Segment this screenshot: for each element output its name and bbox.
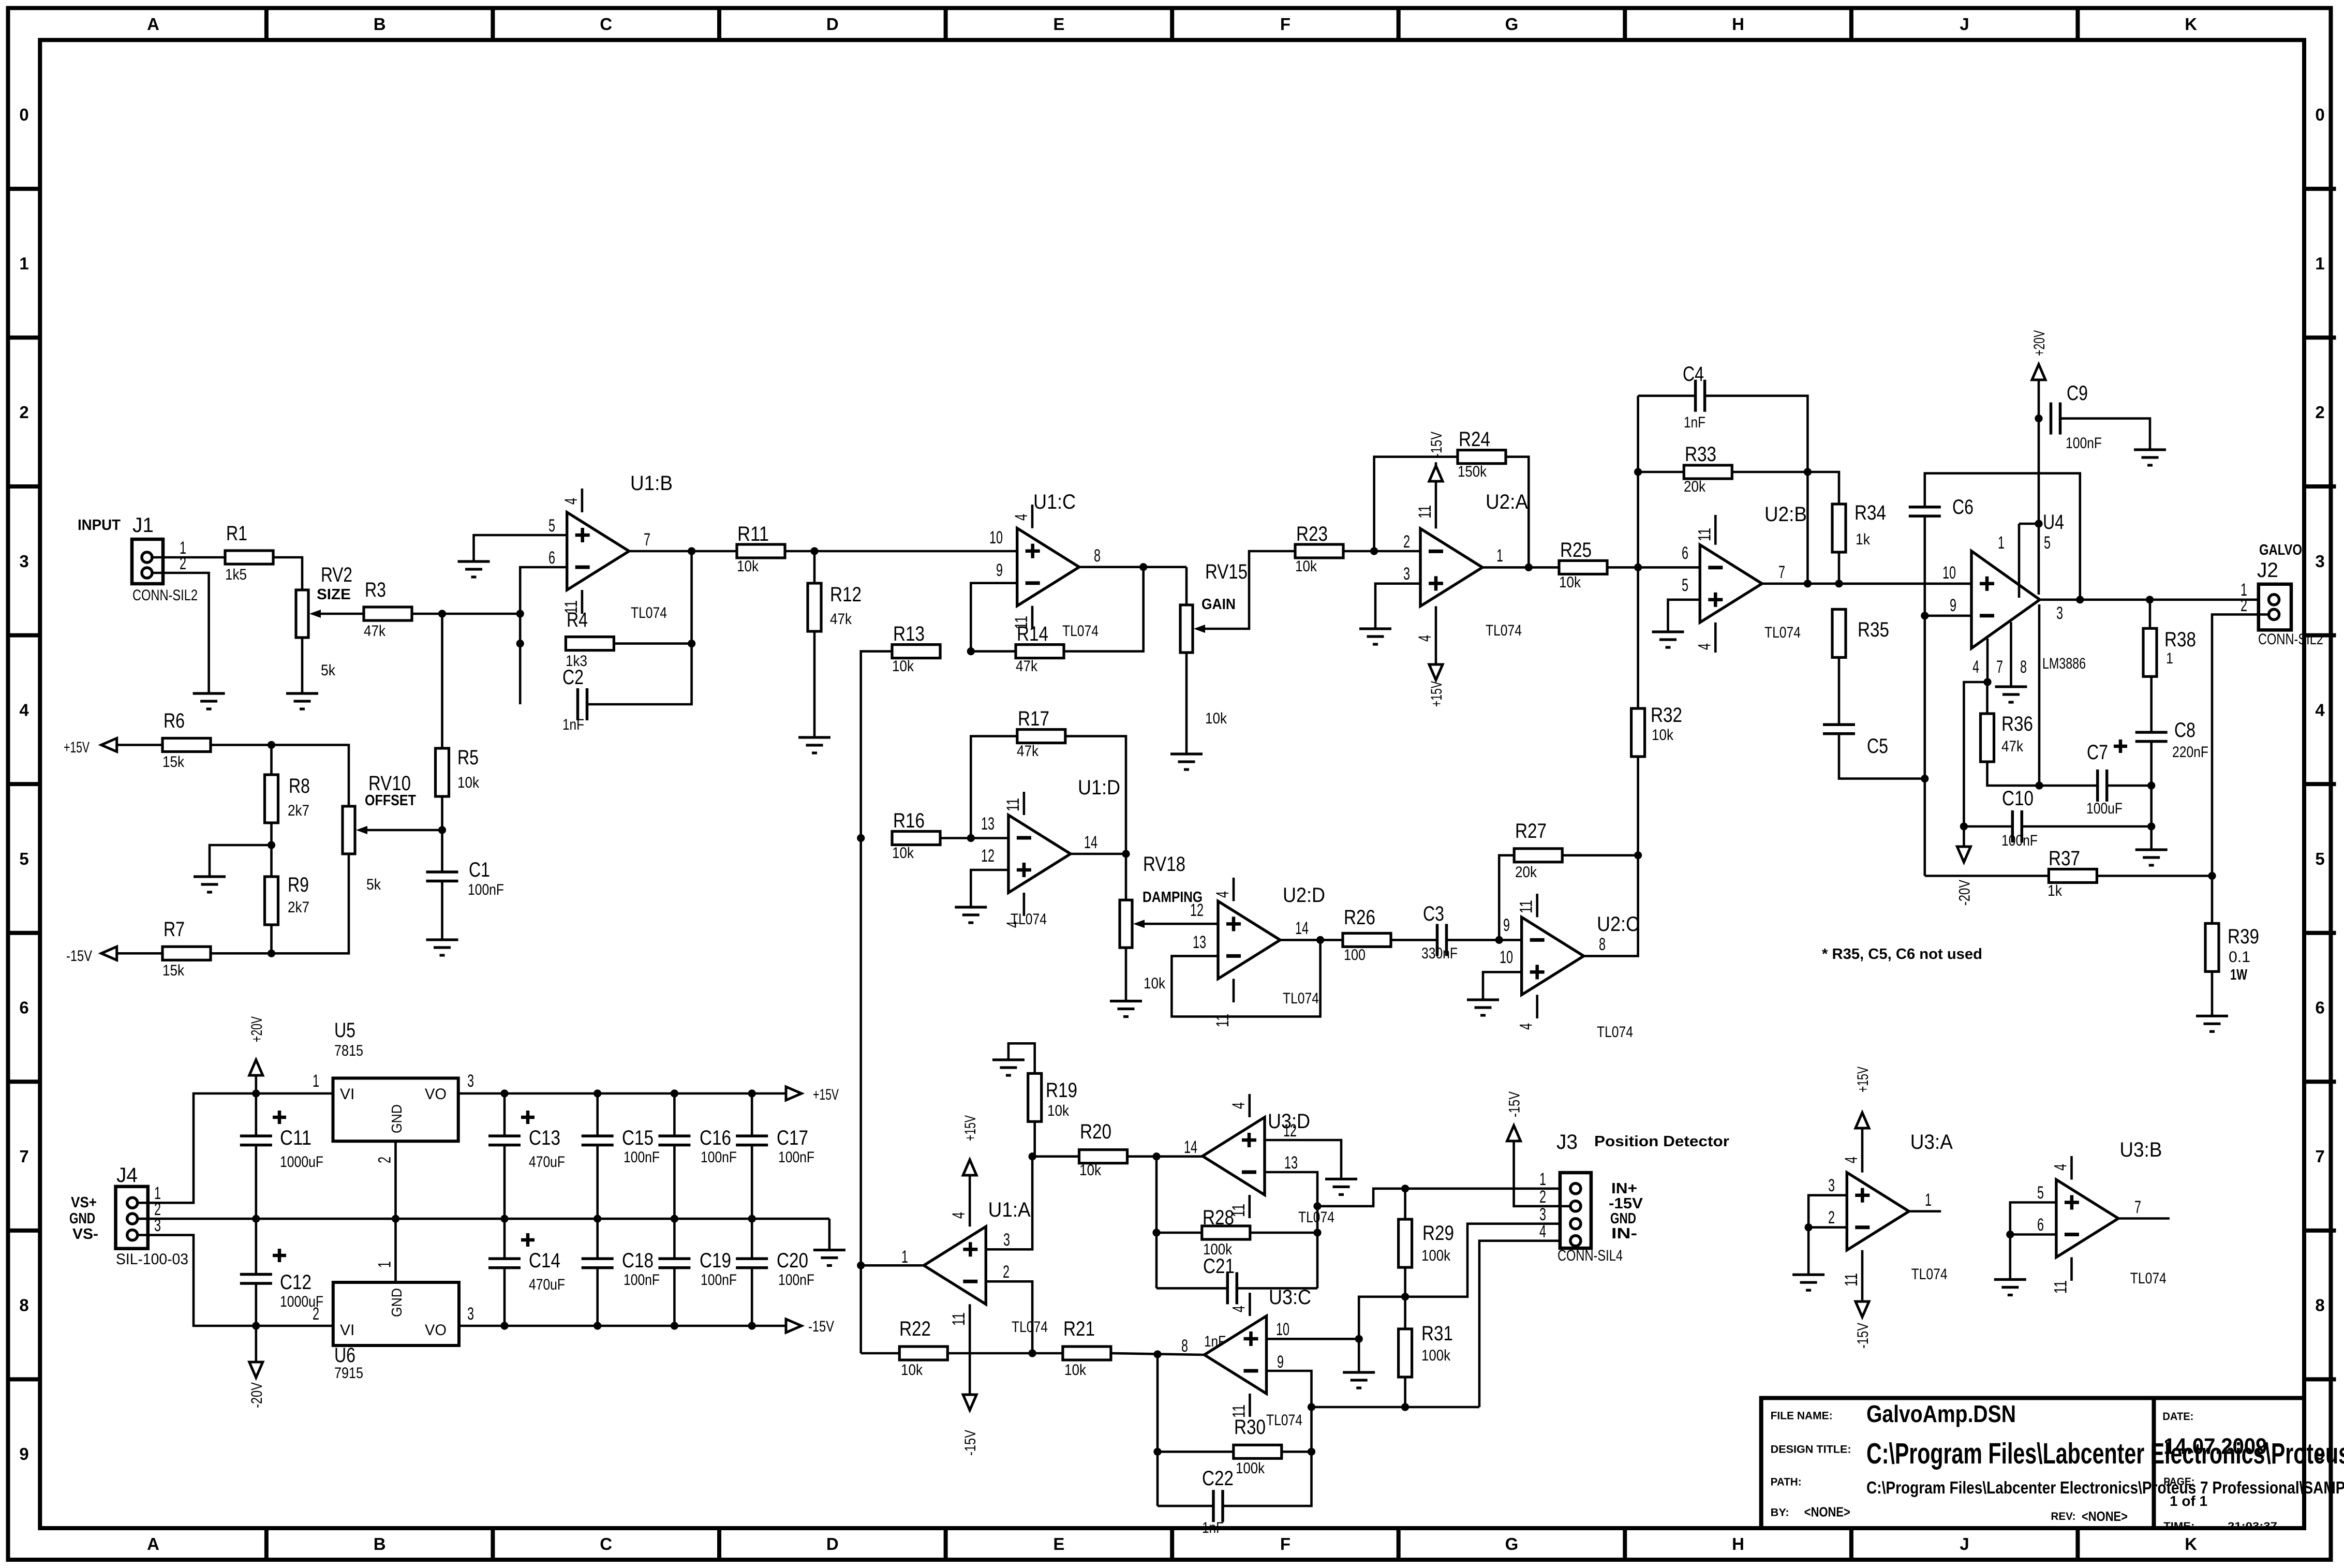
capacitor C15	[582, 1127, 660, 1166]
capacitor C20	[736, 1249, 814, 1289]
wire U3:A pin11 to -15V	[1861, 1250, 1864, 1301]
svg-text:0: 0	[19, 105, 28, 124]
capacitor C19	[658, 1249, 737, 1289]
svg-text:1: 1	[19, 254, 28, 273]
power arrow -20V at C12	[248, 1326, 265, 1408]
wire node down to R37 row	[1924, 779, 1926, 876]
wire R21 to U3:C output	[1111, 1350, 1204, 1358]
svg-text:U1:A: U1:A	[988, 1199, 1031, 1221]
svg-text:7: 7	[644, 530, 650, 550]
wire R36 bottom to C7 row	[1987, 762, 2098, 786]
svg-text:1k5: 1k5	[225, 566, 247, 583]
label Position Detector	[1594, 1133, 1729, 1150]
wire J4 pin1 to +20V rail	[138, 1089, 333, 1203]
svg-text:3: 3	[467, 1304, 474, 1324]
ground at R12	[798, 737, 830, 753]
wire R4 to output column	[614, 640, 695, 647]
wire output to R14 feedback	[1064, 567, 1144, 652]
svg-text:U1:C: U1:C	[1033, 491, 1076, 513]
wire U3:A pin4 to +15V	[1861, 1128, 1864, 1173]
svg-text:+15V: +15V	[813, 1086, 839, 1103]
power arrow -15V at U2:A pin11	[1428, 432, 1445, 481]
op-amp U3:B	[2037, 1138, 2167, 1294]
wire C8 bottom node down	[2147, 742, 2155, 831]
svg-text:H: H	[1732, 1534, 1744, 1554]
wire C5 bottom to R37 column	[1839, 734, 1925, 779]
resistor R9	[265, 874, 310, 925]
ground at U1:D pin 12	[955, 907, 987, 923]
resistor R32	[1631, 704, 1682, 757]
svg-text:4: 4	[1012, 514, 1031, 521]
potentiometer RV10	[343, 772, 411, 893]
svg-text:R27: R27	[1515, 820, 1547, 842]
wire R33 node to R34	[1807, 472, 1839, 504]
power arrow -20V below C10	[1956, 826, 1973, 906]
svg-text:TL074: TL074	[1266, 1412, 1302, 1429]
op-amp U3:C	[1181, 1286, 1311, 1429]
svg-text:6: 6	[1682, 543, 1688, 563]
ground at U1:B pin 5	[458, 561, 490, 577]
wire U3:B inputs tied	[2006, 1203, 2056, 1239]
svg-text:SIL-100-03: SIL-100-03	[116, 1251, 188, 1268]
svg-text:3: 3	[19, 552, 28, 571]
svg-text:13: 13	[981, 814, 995, 834]
resistor R27	[1514, 820, 1562, 881]
svg-text:1: 1	[2315, 254, 2324, 273]
svg-text:TL074: TL074	[1283, 990, 1319, 1007]
capacitor C7	[2086, 739, 2127, 817]
wire junction down to R32	[1637, 567, 1639, 708]
op-amp U1:A	[901, 1199, 1048, 1336]
svg-text:11: 11	[1695, 528, 1714, 541]
wire C21 left	[1156, 1287, 1227, 1290]
connector J4	[116, 1164, 189, 1268]
wire U4 pin5 arrow stem	[2038, 380, 2040, 419]
svg-text:U1:B: U1:B	[630, 472, 673, 495]
svg-text:G: G	[1505, 14, 1519, 34]
wire R34 bottom junction	[1838, 552, 1841, 584]
svg-text:1: 1	[1496, 546, 1503, 566]
ground at C1	[426, 940, 458, 955]
svg-text:11: 11	[2051, 1280, 2071, 1294]
svg-text:100nF: 100nF	[468, 881, 504, 898]
capacitor C11	[240, 1111, 323, 1171]
wire R25 to U2:B pin6	[1607, 564, 1700, 571]
wire U3:C pin10 stub	[1267, 1338, 1359, 1340]
svg-text:F: F	[1280, 1534, 1290, 1554]
power arrow +20V at U4 pin5	[2031, 330, 2048, 380]
connector J3	[1539, 1131, 1623, 1264]
svg-text:TL074: TL074	[1062, 623, 1099, 640]
wire R19 top to ground stub	[1008, 1043, 1035, 1073]
wire U1:B pin6 from node A	[516, 567, 567, 704]
svg-text:470uF: 470uF	[529, 1276, 565, 1293]
svg-text:R28: R28	[1203, 1206, 1234, 1229]
svg-text:C20: C20	[777, 1249, 808, 1272]
wire node A down to R5	[441, 614, 443, 748]
resistor R1	[225, 522, 273, 583]
svg-text:C: C	[600, 14, 612, 34]
wire U1:A pin4 to +15V	[969, 1175, 971, 1226]
wire C8 top to R38	[2150, 675, 2153, 732]
svg-text:10: 10	[1500, 948, 1513, 967]
svg-text:3: 3	[2056, 603, 2063, 623]
potentiometer RV2	[296, 564, 352, 679]
resistor R26	[1343, 906, 1391, 964]
svg-text:R35: R35	[1858, 618, 1889, 641]
power arrow +15V at R6	[64, 738, 117, 757]
op-amp U2:D	[1190, 878, 1325, 1027]
wire U2:A output to R25	[1482, 564, 1559, 571]
svg-text:4: 4	[2051, 1164, 2071, 1171]
resistor R12	[808, 583, 862, 631]
svg-text:TIME:: TIME:	[2163, 1520, 2194, 1532]
svg-text:U2:D: U2:D	[1283, 884, 1325, 907]
wire R23 to U2:A pin2	[1343, 547, 1420, 555]
svg-text:1nF: 1nF	[1202, 1519, 1224, 1536]
wire U3:D pin13 loop	[1265, 1172, 1322, 1288]
svg-text:4: 4	[19, 700, 29, 719]
svg-text:+15V: +15V	[962, 1115, 979, 1141]
ground at RV2	[286, 693, 318, 709]
wire U3:A pin2 to ground	[1807, 1227, 1810, 1275]
svg-text:1: 1	[1925, 1190, 1932, 1210]
wire U6 VO to -15V rail	[459, 1322, 787, 1329]
op-amp U1:C	[989, 491, 1101, 640]
wire RV15 bottom to ground	[1185, 653, 1188, 754]
svg-text:D: D	[826, 14, 839, 34]
svg-text:0.1: 0.1	[2229, 949, 2250, 966]
potentiometer RV18	[1120, 853, 1185, 992]
svg-text:PAGE:: PAGE:	[2163, 1476, 2194, 1488]
wire U1:B pin5 ground stub	[474, 535, 567, 561]
ground at U3:D pin 12	[1325, 1179, 1357, 1194]
resistor R35 (not used)	[1832, 609, 1889, 657]
svg-text:9: 9	[1277, 1352, 1284, 1372]
resistor R29	[1399, 1219, 1454, 1267]
svg-text:C13: C13	[529, 1127, 560, 1149]
svg-text:10k: 10k	[892, 845, 914, 862]
resistor R17	[1017, 707, 1065, 760]
wire U1:D pin12 ground stub	[971, 870, 1008, 907]
svg-text:C4: C4	[1683, 363, 1704, 386]
svg-text:+15V: +15V	[1428, 681, 1445, 707]
svg-text:R36: R36	[2001, 713, 2033, 735]
svg-text:10: 10	[989, 528, 1003, 548]
connector J1	[132, 514, 198, 604]
svg-text:13: 13	[1284, 1153, 1298, 1173]
svg-text:C16: C16	[700, 1127, 731, 1149]
ground at RV18	[1110, 1001, 1142, 1017]
svg-text:1 of 1: 1 of 1	[2170, 1493, 2207, 1509]
svg-text:1: 1	[375, 1261, 395, 1268]
wire U2:B pin5 ground stub	[1668, 600, 1700, 632]
svg-text:100nF: 100nF	[624, 1149, 660, 1166]
wire R24 to U2:A output	[1506, 457, 1529, 568]
label GND	[69, 1210, 95, 1227]
svg-text:8: 8	[2315, 1296, 2324, 1315]
wire C11 top	[255, 1093, 257, 1136]
wire GND rail to ground	[828, 1219, 831, 1250]
wire C18 leads	[596, 1219, 599, 1326]
wire C11 bottom to GND rail	[252, 1145, 260, 1223]
svg-text:0: 0	[2315, 105, 2324, 124]
wire U1:D output to RV18	[1071, 850, 1130, 900]
wire U2:C output	[1584, 855, 1638, 956]
svg-text:10k: 10k	[737, 558, 759, 575]
svg-text:11: 11	[1003, 798, 1023, 811]
resistor R21	[1063, 1318, 1111, 1379]
svg-text:J: J	[1960, 14, 1969, 34]
capacitor C10	[2001, 787, 2038, 849]
svg-text:U6: U6	[334, 1344, 355, 1367]
svg-text:CONN-SIL2: CONN-SIL2	[132, 587, 198, 604]
svg-text:15k: 15k	[162, 962, 185, 979]
label OFFSET	[365, 792, 416, 809]
label IN-	[1611, 1225, 1637, 1242]
capacitor C3	[1421, 903, 1458, 962]
svg-text:R34: R34	[1855, 501, 1886, 524]
svg-text:1: 1	[313, 1071, 319, 1091]
wire RV15 wiper to R23	[1205, 551, 1295, 629]
svg-text:DESIGN TITLE:: DESIGN TITLE:	[1771, 1444, 1851, 1456]
svg-text:2: 2	[313, 1304, 319, 1324]
svg-text:R25: R25	[1560, 539, 1592, 561]
wire bus to R22	[861, 1352, 900, 1355]
wire C4 right to R33 right	[1705, 396, 1812, 588]
svg-text:C1: C1	[469, 859, 490, 881]
wire R3 to node A with junction	[412, 610, 520, 617]
resistor R19	[1028, 1073, 1077, 1121]
svg-text:100k: 100k	[1421, 1347, 1451, 1364]
wire J3 pin2 to -15V arrow	[1514, 1155, 1570, 1206]
svg-text:100nF: 100nF	[624, 1271, 660, 1289]
wire R12 to ground	[813, 631, 816, 737]
label VS-	[72, 1226, 98, 1242]
wire U4 pins 1 5 to +20V	[2019, 415, 2043, 598]
power arrow +15V right	[786, 1086, 839, 1103]
svg-text:47k: 47k	[2001, 738, 2024, 755]
svg-text:+15V: +15V	[1855, 1067, 1872, 1092]
svg-text:4: 4	[1695, 643, 1714, 650]
svg-text:9: 9	[996, 560, 1003, 580]
wire U1:A pin2 to R21 R22 node	[986, 1281, 1036, 1357]
svg-text:6: 6	[19, 998, 28, 1017]
wire C22 right	[1223, 1452, 1312, 1506]
wire J4 pin3 to -15V rail	[138, 1235, 333, 1330]
svg-text:H: H	[1732, 14, 1744, 34]
svg-text:100k: 100k	[1421, 1247, 1451, 1264]
resistor R31	[1399, 1322, 1453, 1377]
wire U2:B output to U4	[1762, 580, 1971, 587]
svg-text:1: 1	[1998, 533, 2005, 553]
svg-text:2: 2	[1403, 532, 1410, 552]
op-amp U1:D	[981, 776, 1120, 928]
svg-text:R17: R17	[1018, 707, 1049, 730]
resistor R38	[2143, 628, 2196, 676]
svg-text:-15V: -15V	[66, 948, 92, 965]
svg-text:8: 8	[19, 1296, 28, 1315]
wire J2 pin2 to R37 node	[2212, 614, 2269, 876]
svg-text:2: 2	[1539, 1187, 1546, 1207]
wire -15V arrow to R7	[117, 952, 162, 955]
wire U1:C out to RV15 top	[1185, 567, 1188, 605]
svg-text:7915: 7915	[334, 1365, 363, 1382]
power arrow +15V at U2:A pin4	[1428, 664, 1445, 707]
wire R13 to bus	[857, 652, 892, 1353]
svg-text:4: 4	[561, 498, 581, 505]
wire U2:A pin3 ground stub	[1375, 584, 1420, 629]
wire C21 right	[1237, 1287, 1317, 1290]
wire R31 bottom	[1404, 1377, 1406, 1407]
wire RV18 wiper to U2:D pin12	[1145, 923, 1218, 925]
wire U4 output	[2040, 596, 2259, 603]
wire C10 right	[2022, 825, 2151, 828]
ground at R8 R9 node	[194, 877, 226, 892]
ground at U2:C pin 10	[1467, 1000, 1499, 1015]
svg-text:-20V: -20V	[1956, 880, 1973, 906]
wire C10 node to ground	[2150, 826, 2153, 850]
svg-text:C21: C21	[1203, 1255, 1235, 1278]
ground at RV15	[1170, 754, 1203, 770]
wire U3:C output column	[1153, 1354, 1161, 1506]
title block	[1761, 1398, 2344, 1533]
svg-text:U2:C: U2:C	[1597, 913, 1639, 936]
svg-text:TL074: TL074	[1012, 1319, 1048, 1336]
resistor R5	[436, 746, 480, 796]
svg-text:R12: R12	[830, 583, 862, 606]
wire C14 leads	[503, 1219, 506, 1326]
svg-text:100nF: 100nF	[701, 1149, 737, 1166]
svg-text:1k: 1k	[1856, 531, 1871, 548]
svg-text:100k: 100k	[1236, 1460, 1265, 1477]
svg-text:10k: 10k	[1047, 1102, 1070, 1119]
svg-text:7: 7	[19, 1147, 28, 1166]
label INPUT	[78, 517, 121, 534]
potentiometer RV15	[1180, 560, 1248, 727]
wire U3:C pin9 loop	[1267, 1371, 1316, 1411]
svg-text:U1:D: U1:D	[1078, 776, 1120, 799]
power arrow +15V at U3:A	[1855, 1067, 1872, 1128]
svg-text:<NONE>: <NONE>	[2082, 1508, 2128, 1524]
svg-text:470uF: 470uF	[529, 1153, 565, 1171]
svg-text:G: G	[1505, 1534, 1519, 1554]
svg-text:E: E	[1053, 1534, 1064, 1554]
svg-text:1W: 1W	[2230, 967, 2247, 983]
svg-text:47k: 47k	[364, 623, 386, 640]
wire R39 to ground	[2211, 971, 2214, 1016]
wire junction to ground stub	[210, 845, 272, 877]
wire R37 left	[1925, 875, 2049, 877]
svg-text:BY:: BY:	[1771, 1506, 1789, 1518]
svg-text:U3:A: U3:A	[1910, 1131, 1953, 1153]
wire U1:B output	[629, 547, 737, 555]
svg-text:5: 5	[1682, 575, 1688, 595]
wire GND rail	[138, 1218, 829, 1220]
power arrow -15V at R7	[66, 946, 117, 965]
resistor R11	[737, 523, 785, 575]
ground at R19	[992, 1060, 1025, 1075]
wire U3:B pin6 to ground	[2009, 1235, 2012, 1280]
capacitor C18	[582, 1249, 660, 1289]
ground at U3:B	[1994, 1280, 2026, 1295]
svg-text:-15V: -15V	[1609, 1195, 1643, 1212]
svg-text:C:\Program Files\Labcenter Ele: C:\Program Files\Labcenter Electronics\P…	[1866, 1478, 2344, 1497]
op-amp U3:A	[1828, 1131, 1953, 1286]
svg-text:1: 1	[1539, 1170, 1546, 1189]
svg-text:-20V: -20V	[248, 1382, 265, 1408]
capacitor C5 (not used)	[1823, 724, 1888, 758]
wire RV2 bottom to ground	[301, 638, 304, 693]
wire R33 left lead	[1638, 471, 1684, 474]
svg-text:CONN-SIL4: CONN-SIL4	[1557, 1247, 1623, 1264]
wire U3:B output stub	[2118, 1217, 2170, 1220]
resistor R39	[2205, 923, 2259, 971]
wire C1 to ground	[441, 881, 443, 940]
svg-text:LM3886: LM3886	[2042, 655, 2086, 672]
ground at J1 pin 2	[193, 693, 225, 709]
svg-text:3: 3	[467, 1071, 474, 1091]
svg-text:-15V: -15V	[1428, 432, 1445, 457]
svg-text:RV10: RV10	[368, 772, 411, 795]
svg-text:C2: C2	[562, 666, 584, 689]
svg-text:R14: R14	[1017, 623, 1048, 645]
capacitor C2	[562, 666, 587, 733]
capacitor C6 (not used)	[1909, 496, 1974, 519]
wire C6 bottom to pin9 node	[1924, 516, 1926, 616]
resistor R14	[1016, 623, 1064, 675]
ground at U2:A pin 3	[1359, 629, 1391, 644]
wire V- node to -20V column	[1960, 682, 1987, 831]
op-amp U2:C	[1500, 894, 1639, 1041]
svg-text:2: 2	[19, 403, 28, 422]
svg-text:5: 5	[2037, 1183, 2044, 1203]
svg-text:4: 4	[949, 1212, 969, 1219]
wire RV10 wiper	[367, 829, 442, 832]
wire U2:D output to R26	[1280, 936, 1343, 944]
svg-text:4: 4	[1415, 635, 1435, 642]
svg-text:K: K	[2185, 14, 2197, 34]
svg-text:U2:B: U2:B	[1764, 503, 1807, 526]
svg-text:330nF: 330nF	[1421, 945, 1458, 962]
svg-text:C15: C15	[622, 1127, 654, 1149]
wire R1 to RV2 top	[273, 557, 302, 590]
svg-text:R38: R38	[2164, 628, 2196, 651]
wire R11 to U1:C pin10	[785, 547, 1017, 555]
svg-text:RV15: RV15	[1205, 560, 1248, 583]
svg-text:10k: 10k	[457, 774, 480, 791]
svg-text:GalvoAmp.DSN: GalvoAmp.DSN	[1866, 1400, 2016, 1427]
wire J1 pin1 to R1	[152, 556, 225, 559]
ground at C9	[2134, 450, 2166, 465]
svg-text:J: J	[1960, 1534, 1969, 1554]
svg-text:C9: C9	[2067, 382, 2088, 405]
power arrow -15V right	[786, 1318, 834, 1335]
wire U1:A pin11 to -15V	[969, 1304, 971, 1395]
svg-text:R6: R6	[164, 709, 185, 732]
wire C12 bottom	[255, 1283, 257, 1326]
wire R20 to U3:D output	[1128, 1152, 1204, 1160]
svg-text:100nF: 100nF	[2001, 832, 2038, 849]
wire C15 leads	[594, 1093, 601, 1223]
label VS+	[71, 1194, 97, 1211]
wire R22 to R21	[947, 1352, 1063, 1355]
svg-text:R22: R22	[899, 1318, 931, 1340]
svg-text:VS-: VS-	[72, 1226, 98, 1242]
svg-text:100uF: 100uF	[2086, 800, 2123, 817]
resistor R24	[1458, 428, 1506, 480]
junction R6 R8	[211, 741, 275, 749]
